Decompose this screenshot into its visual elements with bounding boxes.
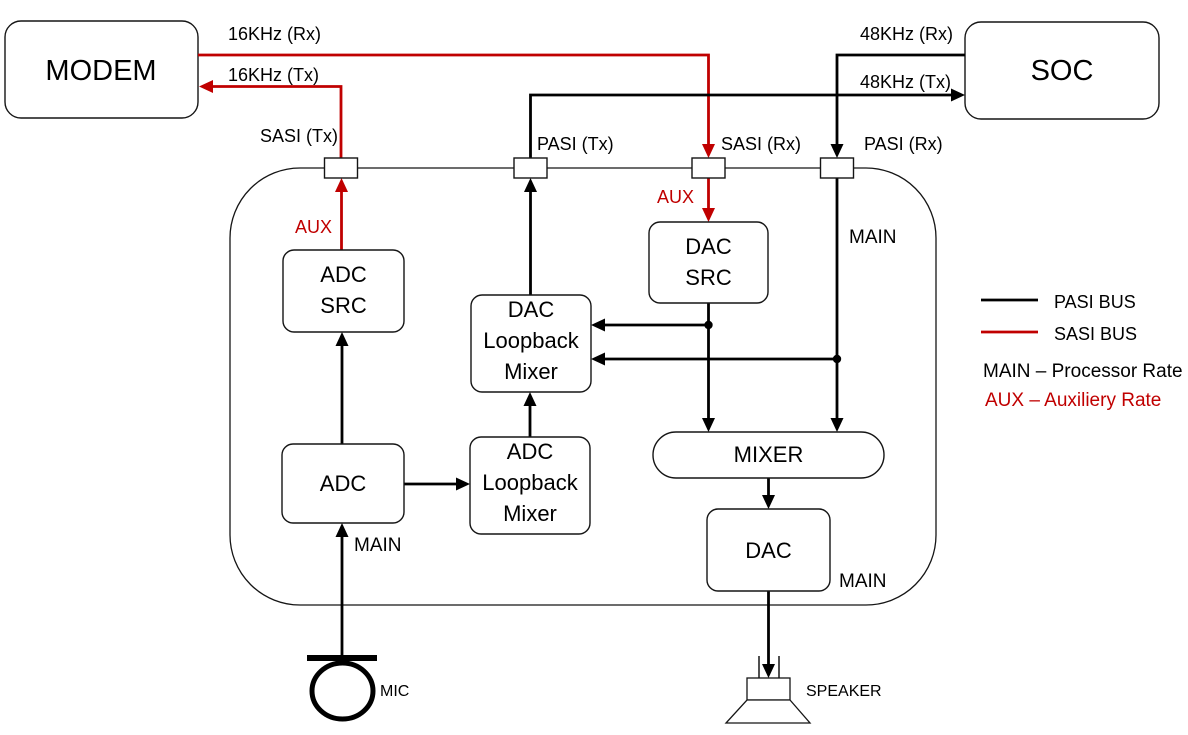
svg-text:Loopback: Loopback — [482, 470, 578, 495]
wire ADC Loopback Mixer up to DAC Loopback Mixer — [529, 404, 532, 437]
svg-text:ADC: ADC — [507, 439, 554, 464]
svg-text:MODEM: MODEM — [45, 55, 156, 87]
wire DAC down to SPEAKER — [767, 591, 770, 666]
wire 48KHz (Rx): SOC to PASI (Rx) — [837, 55, 965, 146]
junction dot on MAIN wire — [833, 355, 841, 363]
MIXER block — [653, 432, 884, 478]
connector SASI (Rx) — [692, 158, 725, 178]
legend SASI BUS line — [981, 331, 1038, 334]
svg-text:48KHz (Tx): 48KHz (Tx) — [860, 72, 951, 92]
arrowhead down into PASI (Rx) connector — [831, 144, 844, 158]
arrowhead right into ADC Loopback Mixer — [456, 478, 470, 491]
wire 16KHz (Tx): SASI (Tx) to MODEM — [212, 87, 341, 159]
svg-text:DAC: DAC — [508, 297, 555, 322]
svg-text:PASI (Rx): PASI (Rx) — [864, 134, 943, 154]
connector SASI (Tx) — [325, 158, 358, 178]
junction dot on DAC SRC wire — [704, 321, 712, 329]
arrowhead down into MIXER — [702, 418, 715, 432]
svg-text:Mixer: Mixer — [504, 359, 558, 384]
DAC SRC block — [649, 222, 768, 303]
svg-text:MIC: MIC — [380, 683, 409, 700]
arrowhead up into PASI (Tx) connector — [524, 178, 537, 192]
arrowhead left into DAC Loopback Mixer — [591, 319, 605, 332]
MODEM block — [5, 21, 198, 118]
arrowhead down into DAC — [762, 495, 775, 509]
wire DAC Loopback Mixer up to PASI (Tx) — [529, 190, 532, 295]
svg-text:AUX – Auxiliery Rate: AUX – Auxiliery Rate — [985, 390, 1161, 411]
ADC Loopback Mixer block — [470, 437, 590, 534]
svg-text:SASI BUS: SASI BUS — [1054, 324, 1137, 344]
svg-text:SRC: SRC — [685, 265, 732, 290]
wire 48KHz (Tx): PASI (Tx) to SOC — [531, 95, 953, 158]
arrowhead down into SASI (Rx) connector — [702, 144, 715, 158]
ADC SRC block — [283, 250, 404, 332]
legend PASI BUS line — [981, 299, 1038, 302]
wire DAC SRC down to MIXER — [707, 303, 710, 420]
svg-text:SPEAKER: SPEAKER — [806, 683, 882, 700]
svg-text:PASI (Tx): PASI (Tx) — [537, 134, 614, 154]
SPEAKER icon — [726, 656, 810, 723]
wire ADC SRC up to SASI (Tx) — [340, 190, 343, 250]
arrowhead up into ADC SRC — [336, 332, 349, 346]
wire SASI (Rx) down to DAC SRC — [707, 178, 710, 210]
arrowhead left into DAC Loopback Mixer — [591, 353, 605, 366]
MIC icon — [307, 655, 377, 719]
DAC block — [707, 509, 830, 591]
wire branch DAC SRC to DAC Loopback Mixer — [604, 324, 709, 327]
wire MIXER down to DAC — [767, 478, 770, 497]
arrowhead left into MODEM — [199, 80, 213, 93]
svg-text:Mixer: Mixer — [503, 501, 557, 526]
svg-text:ADC: ADC — [320, 471, 367, 496]
svg-text:Loopback: Loopback — [483, 328, 579, 353]
svg-text:PASI BUS: PASI BUS — [1054, 292, 1136, 312]
svg-text:SRC: SRC — [320, 293, 367, 318]
svg-text:SOC: SOC — [1031, 55, 1094, 87]
connector PASI (Tx) — [514, 158, 547, 178]
wire ADC right to ADC Loopback Mixer — [404, 483, 458, 486]
arrowhead up into SASI (Tx) connector — [335, 178, 348, 192]
arrowhead down into speaker — [762, 664, 775, 678]
wire MAIN: PASI (Rx) down to MIXER — [836, 178, 839, 420]
svg-text:SASI (Rx): SASI (Rx) — [721, 134, 801, 154]
svg-text:MIXER: MIXER — [734, 442, 804, 467]
wire branch MAIN to DAC Loopback Mixer — [604, 358, 837, 361]
svg-text:16KHz (Rx): 16KHz (Rx) — [228, 24, 321, 44]
arrowhead right into SOC — [951, 89, 965, 102]
ADC block — [282, 444, 404, 523]
arrowhead up into ADC — [336, 523, 349, 537]
svg-text:MAIN: MAIN — [839, 571, 887, 592]
arrowhead up into DAC Loopback Mixer — [524, 392, 537, 406]
arrowhead down into MIXER — [831, 418, 844, 432]
DAC Loopback Mixer block — [471, 295, 591, 392]
arrowhead down into DAC SRC — [702, 208, 715, 222]
svg-text:48KHz (Rx): 48KHz (Rx) — [860, 24, 953, 44]
svg-text:16KHz (Tx): 16KHz (Tx) — [228, 65, 319, 85]
connector PASI (Rx) — [821, 158, 854, 178]
codec chip boundary (large rounded rectangle) — [230, 168, 936, 605]
svg-text:DAC: DAC — [685, 234, 732, 259]
svg-text:DAC: DAC — [745, 538, 792, 563]
svg-text:ADC: ADC — [320, 262, 367, 287]
wire ADC up to ADC SRC — [341, 344, 344, 444]
wire MIC up to ADC — [341, 535, 344, 656]
SOC block — [965, 22, 1159, 119]
svg-text:SASI (Tx): SASI (Tx) — [260, 126, 338, 146]
svg-text:MAIN: MAIN — [849, 227, 897, 248]
svg-text:AUX: AUX — [295, 217, 332, 237]
wire 16KHz (Rx): MODEM to SASI (Rx) — [198, 55, 709, 146]
svg-text:AUX: AUX — [657, 187, 694, 207]
svg-text:MAIN: MAIN — [354, 535, 402, 556]
svg-text:MAIN – Processor Rate: MAIN – Processor Rate — [983, 361, 1183, 382]
